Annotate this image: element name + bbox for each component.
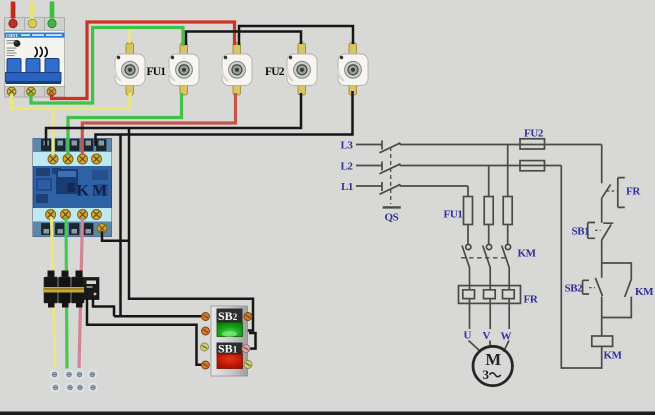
svg-text:SB1: SB1	[218, 342, 238, 356]
svg-text:FU2: FU2	[524, 128, 544, 140]
svg-text:3: 3	[483, 367, 490, 382]
svg-text:SB2: SB2	[565, 283, 584, 295]
svg-text:QS: QS	[385, 212, 399, 224]
svg-text:KM: KM	[77, 183, 111, 200]
svg-text:KM: KM	[604, 350, 623, 362]
svg-text:FR: FR	[524, 294, 539, 306]
svg-text:V: V	[483, 330, 491, 342]
svg-text:FU1: FU1	[147, 66, 167, 78]
svg-text:FR: FR	[626, 186, 641, 198]
svg-text:SB2: SB2	[218, 309, 238, 323]
svg-text:FU2: FU2	[265, 66, 285, 78]
svg-text:L2: L2	[341, 161, 354, 173]
svg-text:FU1: FU1	[444, 209, 463, 221]
svg-text:CHNT: CHNT	[6, 33, 18, 38]
svg-text:U: U	[464, 330, 472, 342]
svg-text:KM: KM	[518, 248, 537, 260]
svg-text:W: W	[501, 331, 512, 343]
svg-text:KM: KM	[635, 286, 654, 298]
svg-text:SB1: SB1	[572, 226, 590, 238]
svg-text:L3: L3	[341, 140, 354, 152]
svg-text:L1: L1	[341, 181, 353, 193]
